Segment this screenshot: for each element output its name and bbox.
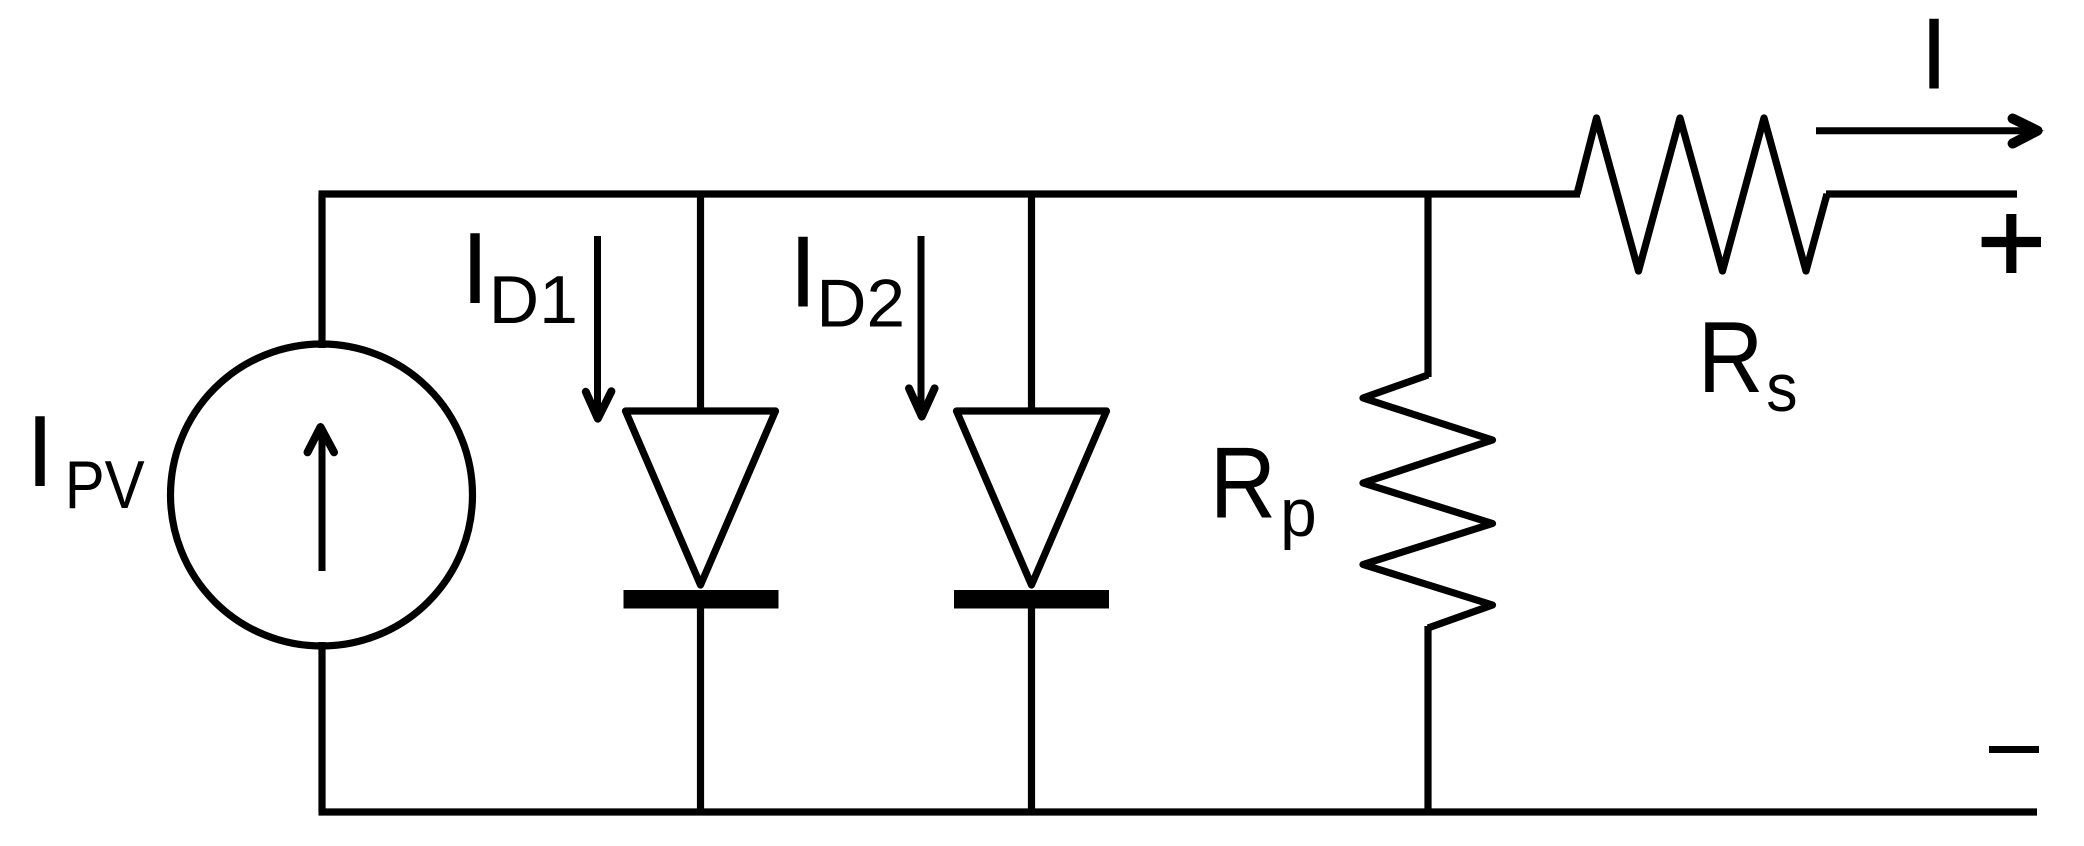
label I_D2 [789,217,905,342]
wire D1 cathode [697,605,704,812]
svg-text:D1: D1 [489,262,578,338]
current source IPV circle [171,344,473,646]
wire D2 cathode [1028,605,1035,812]
wire left drop from rail to source [318,194,325,348]
svg-text:R: R [1698,302,1764,414]
resistor Rs zigzag [1577,118,1827,271]
diode D2 triangle [957,411,1107,585]
wire Rp top [1424,194,1431,377]
current arrow I_D2 [909,236,935,421]
diode D1 cathode bar [624,590,779,609]
wire output top [1826,190,2017,197]
svg-text:s: s [1766,349,1797,425]
svg-text:I: I [26,396,54,508]
resistor Rp zigzag [1363,375,1493,628]
svg-text:D2: D2 [816,265,905,341]
svg-text:PV: PV [65,446,145,522]
diode D1 triangle [626,411,776,585]
wire Rp bottom [1424,626,1431,812]
svg-text:p: p [1280,475,1317,551]
diode D2 cathode bar [954,590,1109,609]
current arrow I_D1 [586,236,612,423]
current arrow I output [1816,119,2044,144]
wire bottom rail [319,808,2038,815]
wire source bottom to rail [318,642,325,812]
svg-text:R: R [1210,428,1276,540]
svg-text:I: I [461,213,489,325]
current source arrow [308,423,335,571]
wire D2 anode [1028,194,1035,411]
svg-text:I: I [1920,0,1948,110]
label I_D1 [461,213,578,338]
wire top rail [319,190,1581,197]
label R_p [1210,428,1317,551]
label I_PV [26,396,145,523]
svg-text:I: I [789,217,817,329]
terminal minus [1989,746,2039,753]
wire D1 anode [697,194,704,411]
terminal plus [1982,214,2041,273]
label R_s [1698,302,1798,426]
